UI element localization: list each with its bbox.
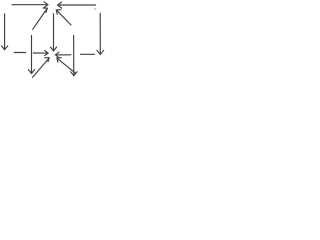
arrow F diagonal up-left shaft <box>57 58 76 73</box>
arrow N head <box>28 70 34 74</box>
arrow N centre-left vertical down shaft <box>31 36 33 74</box>
arrow T top-right left-pointing shaft <box>58 4 96 6</box>
arrow C head <box>56 10 61 15</box>
arrow C diagonal up-left shaft <box>57 10 71 25</box>
arrow D head <box>45 58 49 62</box>
arrow L head <box>2 46 8 50</box>
arrow P head <box>71 72 77 76</box>
arrow B head <box>43 8 47 12</box>
arrow M middle vertical down shaft <box>53 14 55 51</box>
arrow B diagonal up-right shaft <box>33 9 47 30</box>
arrow M head <box>50 47 56 51</box>
arrow E bottom-middle left-pointing shaft <box>56 54 71 56</box>
arrow T head <box>58 2 62 8</box>
dash d1 bottom-left <box>14 52 25 54</box>
arrow A head <box>44 2 48 8</box>
arrow G small right-pointing shaft <box>33 52 48 54</box>
arrow G head <box>45 51 48 56</box>
arrow R right vertical down shaft <box>99 13 101 54</box>
faint mark near top-right <box>94 8 96 10</box>
arrow D diagonal up-right shaft <box>33 58 49 77</box>
arrow A top-left right-pointing shaft <box>12 4 48 6</box>
dash d2 bottom-right <box>81 53 95 55</box>
arrow E head <box>55 52 59 58</box>
arrow F head <box>57 58 62 63</box>
arrow R head <box>97 50 104 54</box>
arrow P centre-right vertical down shaft <box>73 36 75 76</box>
arrow L left vertical down shaft <box>4 14 6 50</box>
